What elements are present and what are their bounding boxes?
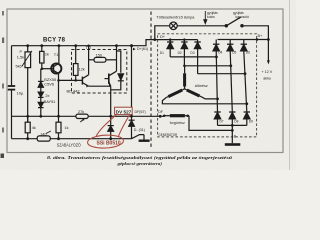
svg-text:D4: D4: [218, 50, 222, 54]
wire: regulator left edge lower (capacitor to bottom rail): [11, 90, 13, 139]
wire: lamp/ignition line: [155, 26, 170, 40]
red annotation funnel to SSiB0510: [87, 115, 129, 149]
transistor T1 (BCY78): [42, 46, 61, 123]
svg-text:1,5k: 1,5k: [17, 55, 24, 59]
main diode DP2: [227, 40, 234, 113]
svg-text:GENERÁTOR: GENERÁTOR: [158, 132, 177, 137]
svg-text:150: 150: [96, 54, 102, 58]
resistor R8 (150 inside module): [89, 57, 117, 62]
svg-text:5k6: 5k6: [16, 64, 22, 68]
svg-text:SZABÁLYOZÓ: SZABÁLYOZÓ: [57, 143, 81, 148]
resistor R3 (4k lower-left divider): [25, 116, 30, 138]
negative diode DN1: [214, 112, 221, 125]
stator star winding: [166, 66, 201, 98]
svg-text:10µ: 10µ: [17, 91, 24, 96]
wire: right phase elbow: [201, 97, 217, 99]
svg-text:DV 527: DV 527: [116, 109, 132, 114]
svg-text:D5: D5: [232, 50, 236, 54]
resistor R4 (1k lower-mid divider, below T1): [56, 122, 61, 139]
left edge smudge 1: [2, 38, 4, 44]
left edge smudge 3: [2, 128, 4, 133]
main diode DP3: [240, 40, 247, 113]
diode D2 (BAY51 upper): [38, 92, 44, 102]
svg-text:B-: B-: [234, 135, 237, 139]
svg-text:kulcs: kulcs: [207, 15, 215, 19]
svg-text:D9: D9: [249, 119, 253, 123]
charge lamp: [170, 22, 178, 30]
wire: left phase to h4: [162, 98, 246, 104]
negative diode DN2: [229, 112, 236, 125]
svg-text:BCY 78: BCY 78: [43, 37, 66, 43]
zener D1 BZX55 C5V6: [38, 69, 44, 92]
wire: DV527 branch from top rail down: [131, 46, 133, 107]
junction dots mid and bottom rails: [26, 44, 133, 140]
svg-text:BD 442: BD 442: [67, 89, 80, 94]
left edge smudge 2: [2, 84, 4, 89]
stator left coil: [182, 89, 184, 90]
negative diode DN3: [243, 112, 250, 125]
resistor R2 (1k, base of T1): [40, 46, 44, 69]
T1 emitter wire down to divider: [58, 73, 60, 122]
wire: regulator bottom rail left of 140-ohm resistor: [12, 138, 38, 140]
capacitor C1 plates: [8, 86, 15, 90]
wire: regulator left edge upper (to capacitor): [11, 46, 13, 86]
svg-text:2x: 2x: [45, 93, 49, 98]
svg-text:12k: 12k: [79, 67, 85, 71]
svg-text:C5V6: C5V6: [44, 82, 54, 87]
T1 collector wire to top rail: [58, 46, 60, 64]
svg-text:D6: D6: [246, 50, 250, 54]
page artifact line right: [289, 0, 291, 170]
dashed separator line (vehicle boundary): [150, 12, 152, 150]
diode D5 (suppression, left): [108, 116, 114, 138]
wire: phase link h3: [198, 73, 245, 75]
diode D4 (free-wheeling): [111, 51, 124, 90]
svg-text:akku: akku: [263, 77, 271, 81]
T3 collector wire to top rail: [116, 46, 118, 71]
svg-text:Töltésellenőrző lámpa: Töltésellenőrző lámpa: [156, 15, 195, 19]
ground (generator): [225, 143, 241, 146]
svg-text:gépkocsi-generátorra): gépkocsi-generátorra): [116, 161, 162, 166]
svg-text:140: 140: [40, 132, 46, 136]
transistor T3 (BD442 output): [105, 46, 117, 117]
resistor R5 (140, in bottom rail): [37, 131, 51, 141]
svg-text:BAY51: BAY51: [44, 99, 56, 104]
wire: switch to battery drop: [242, 26, 268, 61]
dashed module box (power stage): [72, 50, 127, 94]
T2 collector wire up: [88, 46, 90, 75]
svg-text:SSi B0510: SSi B0510: [97, 141, 121, 147]
svg-text:D7: D7: [220, 119, 224, 123]
wire: rotor to B-: [189, 116, 232, 131]
wire: B+ rail: [218, 39, 269, 41]
junction dots regulator top rail: [26, 44, 133, 47]
border frame: [7, 9, 283, 153]
wire: D- run to ground: [132, 135, 145, 139]
svg-text:DF: DF: [158, 110, 164, 114]
exciter diode DG3: [194, 40, 201, 74]
svg-text:D+: D+: [160, 34, 166, 39]
wire: lamp to switch: [177, 25, 226, 27]
left edge smudge 4: [1, 154, 5, 159]
svg-text:B+: B+: [258, 33, 264, 38]
diode D6 (suppression, right): [129, 115, 135, 139]
generator dashed box: [158, 34, 257, 137]
stator right coil: [185, 89, 187, 90]
ignition key arrow: [204, 11, 207, 24]
T2 emitter wire to T3: [89, 85, 111, 87]
wire: phase link h1: [170, 56, 216, 58]
svg-text:állórész: állórész: [195, 84, 208, 88]
wire: negative diode bus: [218, 124, 247, 126]
svg-text:DF(67): DF(67): [135, 110, 146, 114]
main diode DP1: [213, 40, 220, 113]
svg-text:27k: 27k: [78, 110, 84, 114]
diode D3 (BAY51 lower): [38, 102, 44, 116]
wire: regulator bottom rail right of 140-ohm resistor: [50, 138, 131, 140]
wire: B- drop to ground: [231, 125, 233, 143]
svg-text:D2: D2: [178, 51, 182, 55]
left edge smudge 0: [2, 11, 4, 16]
exciter diode DG1: [167, 40, 174, 57]
exciter diode DG2: [181, 40, 188, 66]
svg-text:4k: 4k: [32, 126, 36, 130]
ignition switch: [225, 17, 243, 27]
ground (regulator): [139, 135, 150, 142]
svg-text:kapcsoló: kapcsoló: [236, 15, 249, 19]
resistor R7 (12k inside module): [73, 46, 78, 81]
svg-text:D8: D8: [234, 119, 238, 123]
svg-text:1k: 1k: [65, 126, 69, 130]
rotor field winding: [164, 115, 189, 117]
svg-text:8. ábra. Tranzisztoros feszült: 8. ábra. Tranzisztoros feszültségszabály…: [47, 155, 233, 160]
svg-text:1k: 1k: [45, 53, 49, 57]
wire: regulator top rail: [12, 40, 198, 46]
wire: phase link h2: [184, 65, 230, 67]
T3 emitter wire down to mid rail: [110, 86, 112, 116]
junction dots generator: [153, 38, 269, 132]
wire: T1 emitter to T2 base line: [59, 79, 83, 81]
potentiometer P1: [22, 46, 32, 123]
svg-text:▶ D+(61): ▶ D+(61): [133, 47, 148, 51]
transistor T2 (driver): [82, 46, 110, 88]
resistor R6 (27k trimmer on mid rail): [76, 114, 88, 122]
stator top coil: [184, 66, 186, 74]
battery arrow: [267, 60, 270, 64]
svg-text:D- (31): D- (31): [134, 128, 145, 132]
svg-text:forgórész: forgórész: [170, 121, 185, 125]
wire: regulator mid rail (divider / DF line): [12, 115, 76, 117]
wire: mid rail from 27k to DF exit: [88, 115, 164, 117]
svg-text:D1: D1: [160, 51, 164, 55]
DV527 box (red annotation): [115, 107, 133, 114]
svg-text:D3: D3: [190, 51, 194, 55]
svg-text:+ 12 V: + 12 V: [262, 70, 273, 74]
